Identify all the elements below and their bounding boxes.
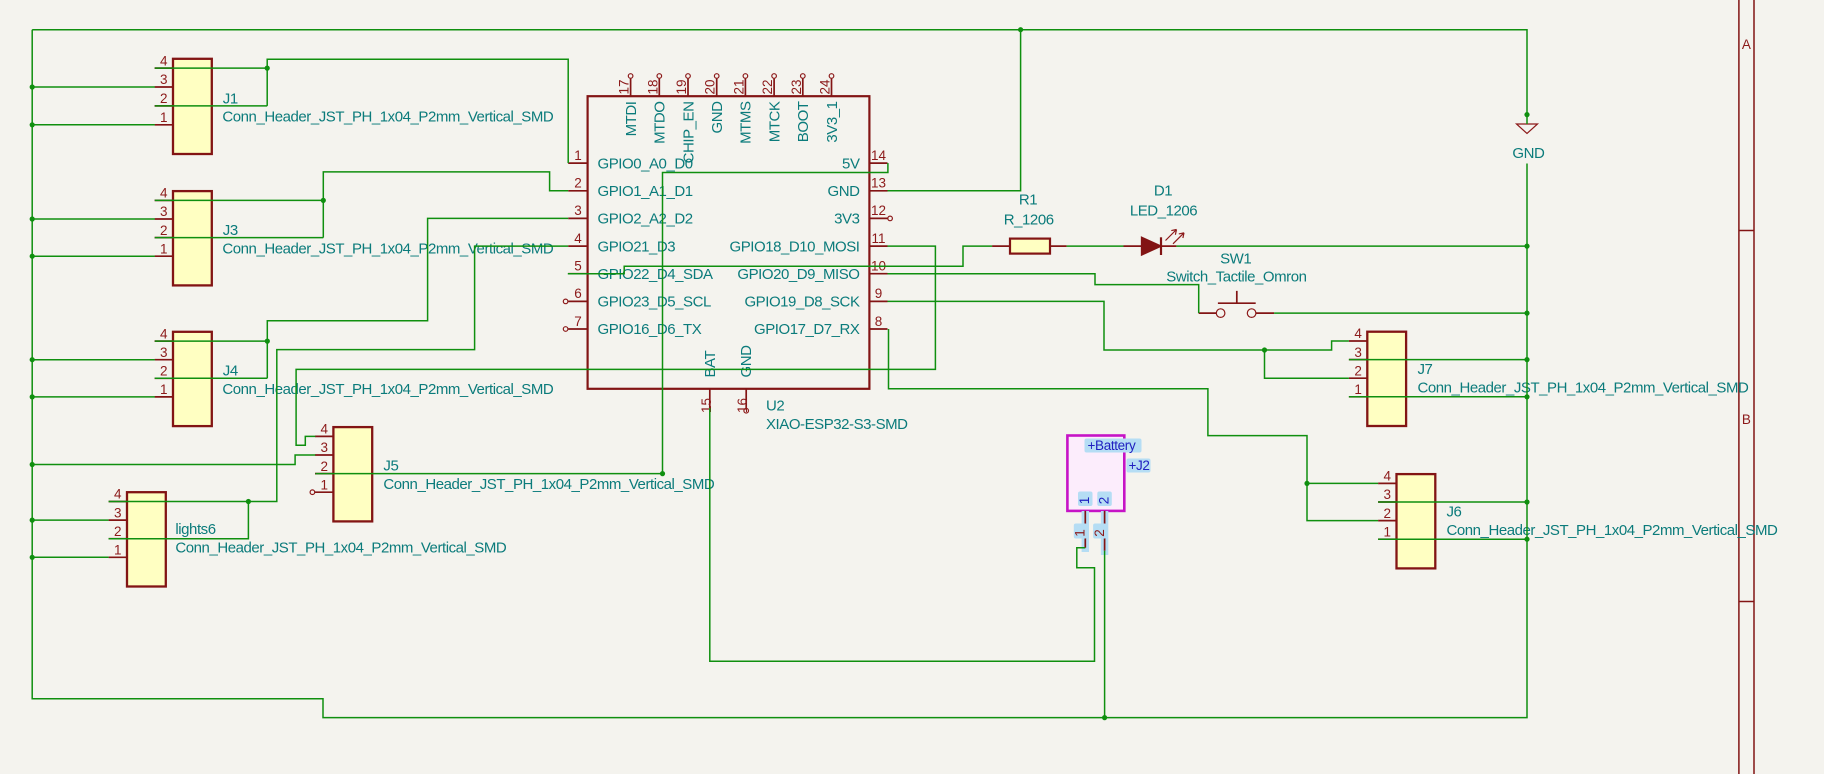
wire battery pin1 to U2 pin15 BAT <box>710 408 1095 661</box>
junction dots right rail <box>1524 244 1529 249</box>
junction dot 5V net at J5 pin2 <box>660 471 665 476</box>
svg-text:4: 4 <box>1354 326 1362 341</box>
wire J7 pin3 to rail <box>1349 359 1527 361</box>
svg-text:3V3_1: 3V3_1 <box>824 101 841 142</box>
svg-text:Conn_Header_JST_PH_1x04_P2mm_V: Conn_Header_JST_PH_1x04_P2mm_Vertical_SM… <box>222 240 554 257</box>
svg-text:1: 1 <box>320 477 328 492</box>
wire J6 pin3 to rail <box>1378 501 1527 503</box>
battery label +J2 <box>1127 459 1151 473</box>
J1 pins 4,3,2,1 stubs <box>155 67 173 69</box>
svg-text:BOOT: BOOT <box>795 101 812 142</box>
svg-text:R1: R1 <box>1019 192 1037 209</box>
svg-text:MTDO: MTDO <box>652 102 669 144</box>
D1 emission arrows <box>1166 230 1177 241</box>
battery label +Battery <box>1085 439 1142 453</box>
wire J7 pin1 to rail <box>1349 396 1527 398</box>
svg-text:GPIO23_D5_SCL: GPIO23_D5_SCL <box>598 294 711 311</box>
svg-text:GPIO17_D7_RX: GPIO17_D7_RX <box>754 321 860 338</box>
junction dot J3 net <box>321 198 326 203</box>
junction dot bottom rail battery <box>1102 715 1107 720</box>
svg-text:Conn_Header_JST_PH_1x04_P2mm_V: Conn_Header_JST_PH_1x04_P2mm_Vertical_SM… <box>175 540 507 557</box>
junction dots left rail <box>30 84 35 89</box>
wire 5V net U2 pin14 to J5 pin2 <box>663 163 888 474</box>
svg-text:GPIO19_D8_SCK: GPIO19_D8_SCK <box>744 294 859 311</box>
junction dot J1 net <box>265 66 270 71</box>
wire U2 pin8 to J6 pins4/2 <box>889 329 1308 483</box>
svg-text:8: 8 <box>875 314 883 329</box>
U2 top pins 17-24 stubs <box>630 79 632 97</box>
svg-text:20: 20 <box>703 79 718 94</box>
connector J5 (Conn) body <box>333 427 372 521</box>
svg-text:11: 11 <box>871 231 885 246</box>
connector J1 (Conn) body <box>173 59 212 154</box>
svg-text:GPIO18_D10_MOSI: GPIO18_D10_MOSI <box>730 238 860 255</box>
svg-text:22: 22 <box>760 79 775 94</box>
wire J5 pin4 to U2 pin11 <box>296 246 935 445</box>
svg-text:R_1206: R_1206 <box>1004 212 1054 229</box>
svg-text:3: 3 <box>1354 345 1362 360</box>
svg-text:2: 2 <box>1092 529 1107 537</box>
svg-text:GND: GND <box>709 101 726 134</box>
wire battery pin2 to bottom rail <box>1104 551 1106 718</box>
wire U2 pin4 to lights6 pin4/pin2 <box>248 246 568 501</box>
svg-text:MTDI: MTDI <box>623 102 640 137</box>
resistor R1 body <box>1010 239 1050 254</box>
svg-text:2: 2 <box>1097 497 1112 504</box>
svg-text:J1: J1 <box>223 90 238 107</box>
wire J1 pin3 to rail <box>32 86 155 88</box>
J6 pins 4,3,2,1 stubs <box>1378 482 1396 484</box>
battery pin leads 1,2 <box>1085 511 1104 551</box>
battery pin highlight boxes <box>1082 511 1089 552</box>
IC U2 XIAO-ESP32-S3-SMD body <box>588 96 870 389</box>
svg-text:12: 12 <box>871 203 886 218</box>
wire J1 pin4/pin2 net to U2 pin1 <box>155 67 267 69</box>
svg-text:J5: J5 <box>383 458 398 475</box>
wire U2 pin9 to J7 pins4/2 <box>888 301 1265 350</box>
J4 pins 4,3,2,1 stubs <box>155 340 173 342</box>
U2 unconnected pin circles 6,7,12,16,17-24 <box>563 299 568 304</box>
wire J4 pin4/pin2 net to U2 pin3 <box>155 340 267 342</box>
svg-text:U2: U2 <box>766 398 784 415</box>
wire J3 pin4/pin2 net to U2 pin2 <box>155 199 323 201</box>
wire D1 cathode to GND rail <box>1176 245 1527 247</box>
svg-text:J4: J4 <box>223 363 238 380</box>
D1 leads <box>1124 245 1177 247</box>
svg-text:MTCK: MTCK <box>766 101 783 142</box>
svg-text:3: 3 <box>1384 487 1392 502</box>
battery block J2 body <box>1067 436 1124 511</box>
J7 pins 4,3,2,1 stubs <box>1349 340 1367 342</box>
switch SW1 symbol <box>1216 309 1225 318</box>
svg-text:GND: GND <box>1512 145 1545 162</box>
svg-text:Conn_Header_JST_PH_1x04_P2mm_V: Conn_Header_JST_PH_1x04_P2mm_Vertical_SM… <box>383 476 715 493</box>
svg-text:3: 3 <box>320 440 328 455</box>
svg-text:5V: 5V <box>842 155 860 172</box>
wire U2 pin10 to SW1 <box>888 274 1199 313</box>
svg-text:5: 5 <box>574 259 582 274</box>
svg-text:CHIP_EN: CHIP_EN <box>680 102 697 164</box>
svg-text:Conn_Header_JST_PH_1x04_P2mm_V: Conn_Header_JST_PH_1x04_P2mm_Vertical_SM… <box>222 109 554 126</box>
svg-text:7: 7 <box>574 314 582 329</box>
svg-text:2: 2 <box>114 524 122 539</box>
svg-text:14: 14 <box>871 148 887 163</box>
svg-text:4: 4 <box>114 487 122 502</box>
svg-text:B: B <box>1742 412 1751 427</box>
svg-text:GPIO20_D9_MISO: GPIO20_D9_MISO <box>737 266 859 283</box>
connector lights6 (Conn) body <box>127 492 166 586</box>
svg-text:15: 15 <box>699 398 714 413</box>
svg-text:2: 2 <box>160 223 168 238</box>
svg-text:2: 2 <box>320 459 328 474</box>
wire J4 pin3 to rail <box>32 359 155 361</box>
svg-text:lights6: lights6 <box>175 521 215 538</box>
junction dot GND symbol <box>1524 112 1529 117</box>
svg-text:18: 18 <box>645 79 660 94</box>
SW1 leads <box>1199 312 1274 314</box>
lights6 pins 4,3,2,1 stubs <box>109 501 127 503</box>
svg-text:J7: J7 <box>1418 361 1433 378</box>
svg-text:GPIO21_D3: GPIO21_D3 <box>598 238 676 255</box>
svg-text:21: 21 <box>731 79 746 94</box>
J3 pins 4,3,2,1 stubs <box>155 199 173 201</box>
svg-text:Conn_Header_JST_PH_1x04_P2mm_V: Conn_Header_JST_PH_1x04_P2mm_Vertical_SM… <box>222 381 554 398</box>
wire J4 pin1 to rail <box>32 396 155 398</box>
wire J6 pin1 to rail <box>1378 538 1527 540</box>
svg-text:9: 9 <box>875 286 883 301</box>
svg-text:2: 2 <box>574 176 582 191</box>
svg-text:GPIO0_A0_D0: GPIO0_A0_D0 <box>598 155 693 172</box>
svg-text:4: 4 <box>320 422 328 437</box>
svg-text:3: 3 <box>160 345 168 360</box>
svg-text:Conn_Header_JST_PH_1x04_P2mm_V: Conn_Header_JST_PH_1x04_P2mm_Vertical_SM… <box>1418 380 1750 397</box>
svg-text:2: 2 <box>1354 363 1362 378</box>
svg-text:+Battery: +Battery <box>1088 438 1136 453</box>
svg-text:1: 1 <box>160 110 168 125</box>
J5 pin1 unconnected circle <box>310 490 315 495</box>
svg-text:1: 1 <box>160 241 168 256</box>
svg-text:BAT: BAT <box>702 351 719 378</box>
svg-text:A: A <box>1742 37 1751 52</box>
J5 pins 4,3,2,1 stubs <box>315 435 333 437</box>
svg-text:J3: J3 <box>223 222 238 239</box>
battery inside pin numbers 1,2 (blue) <box>1078 492 1093 507</box>
svg-text:MTMS: MTMS <box>738 101 755 144</box>
svg-text:J6: J6 <box>1447 503 1462 520</box>
LED D1 triangle and bar <box>1142 237 1161 255</box>
svg-text:4: 4 <box>574 231 582 246</box>
svg-text:23: 23 <box>789 79 804 94</box>
svg-text:1: 1 <box>1077 497 1092 504</box>
svg-text:1: 1 <box>1384 524 1392 539</box>
U2 left pins 1-7 stubs <box>568 162 587 164</box>
svg-text:Conn_Header_JST_PH_1x04_P2mm_V: Conn_Header_JST_PH_1x04_P2mm_Vertical_SM… <box>1447 522 1779 539</box>
svg-text:6: 6 <box>574 286 582 301</box>
wire SW1 to GND rail <box>1274 312 1527 314</box>
svg-text:17: 17 <box>617 79 632 94</box>
svg-text:3: 3 <box>114 505 122 520</box>
svg-text:1: 1 <box>1354 382 1362 397</box>
ground symbol GND top right <box>1517 124 1538 134</box>
svg-text:D1: D1 <box>1154 183 1172 200</box>
svg-text:GPIO2_A2_D2: GPIO2_A2_D2 <box>598 211 693 228</box>
connector J4 (Conn) body <box>173 332 212 426</box>
svg-text:XIAO-ESP32-S3-SMD: XIAO-ESP32-S3-SMD <box>766 416 908 433</box>
svg-text:4: 4 <box>1384 469 1392 484</box>
svg-text:1: 1 <box>114 543 122 558</box>
wire lights6 pin3 to rail <box>32 519 108 521</box>
svg-text:SW1: SW1 <box>1220 251 1251 268</box>
svg-text:13: 13 <box>871 176 886 191</box>
U2 bottom pins 15,16 stubs <box>709 389 711 408</box>
svg-text:GPIO1_A1_D1: GPIO1_A1_D1 <box>598 183 693 200</box>
svg-text:3: 3 <box>160 72 168 87</box>
svg-text:2: 2 <box>1384 506 1392 521</box>
svg-text:GND: GND <box>738 345 755 378</box>
sheet border frame right side <box>1739 0 1754 774</box>
R1 leads <box>992 245 1067 247</box>
svg-text:GPIO16_D6_TX: GPIO16_D6_TX <box>598 321 702 338</box>
connector J3 (Conn) body <box>173 191 212 285</box>
wire J3 pin1 to rail <box>32 255 155 257</box>
svg-text:2: 2 <box>160 364 168 379</box>
junction dot lights6 net <box>246 499 251 504</box>
connector J6 (Conn) body <box>1397 474 1436 568</box>
junction dot J6 net <box>1304 481 1309 486</box>
wire J1 pin1 to rail <box>32 124 155 126</box>
connector J7 (Conn) body <box>1367 332 1406 426</box>
battery outside pin numbers 1,2 (red, highlighted) <box>1074 524 1088 539</box>
wire GND outer rail loop <box>32 30 1527 124</box>
svg-text:4: 4 <box>160 186 168 201</box>
junction dot J4 net <box>265 339 270 344</box>
svg-text:24: 24 <box>818 79 833 95</box>
wire GND tap to U2 pin13 <box>888 30 1021 191</box>
U2 right pins 14-8 stubs <box>869 162 887 164</box>
svg-text:1: 1 <box>574 148 582 163</box>
svg-text:4: 4 <box>160 53 168 68</box>
svg-text:LED_1206: LED_1206 <box>1130 203 1197 220</box>
svg-text:1: 1 <box>1073 529 1088 537</box>
svg-text:3V3: 3V3 <box>834 211 859 228</box>
svg-text:Switch_Tactile_Omron: Switch_Tactile_Omron <box>1166 269 1306 286</box>
svg-text:+J2: +J2 <box>1129 458 1150 473</box>
junction dot J7 net <box>1262 347 1267 352</box>
svg-text:2: 2 <box>160 91 168 106</box>
svg-text:3: 3 <box>574 203 582 218</box>
svg-text:3: 3 <box>160 204 168 219</box>
svg-text:1: 1 <box>160 382 168 397</box>
wire J3 pin3 to rail <box>32 218 155 220</box>
svg-text:19: 19 <box>674 79 689 94</box>
wire J5 pin3 to rail <box>32 455 315 465</box>
wire lights6 pin1 to rail <box>32 556 108 558</box>
wire R1 to D1 <box>1067 245 1124 247</box>
junction dot top rail pin13 tap <box>1018 27 1023 32</box>
svg-text:4: 4 <box>160 326 168 341</box>
svg-text:GND: GND <box>828 183 861 200</box>
wire U2 pin5 to R1 <box>568 246 992 274</box>
